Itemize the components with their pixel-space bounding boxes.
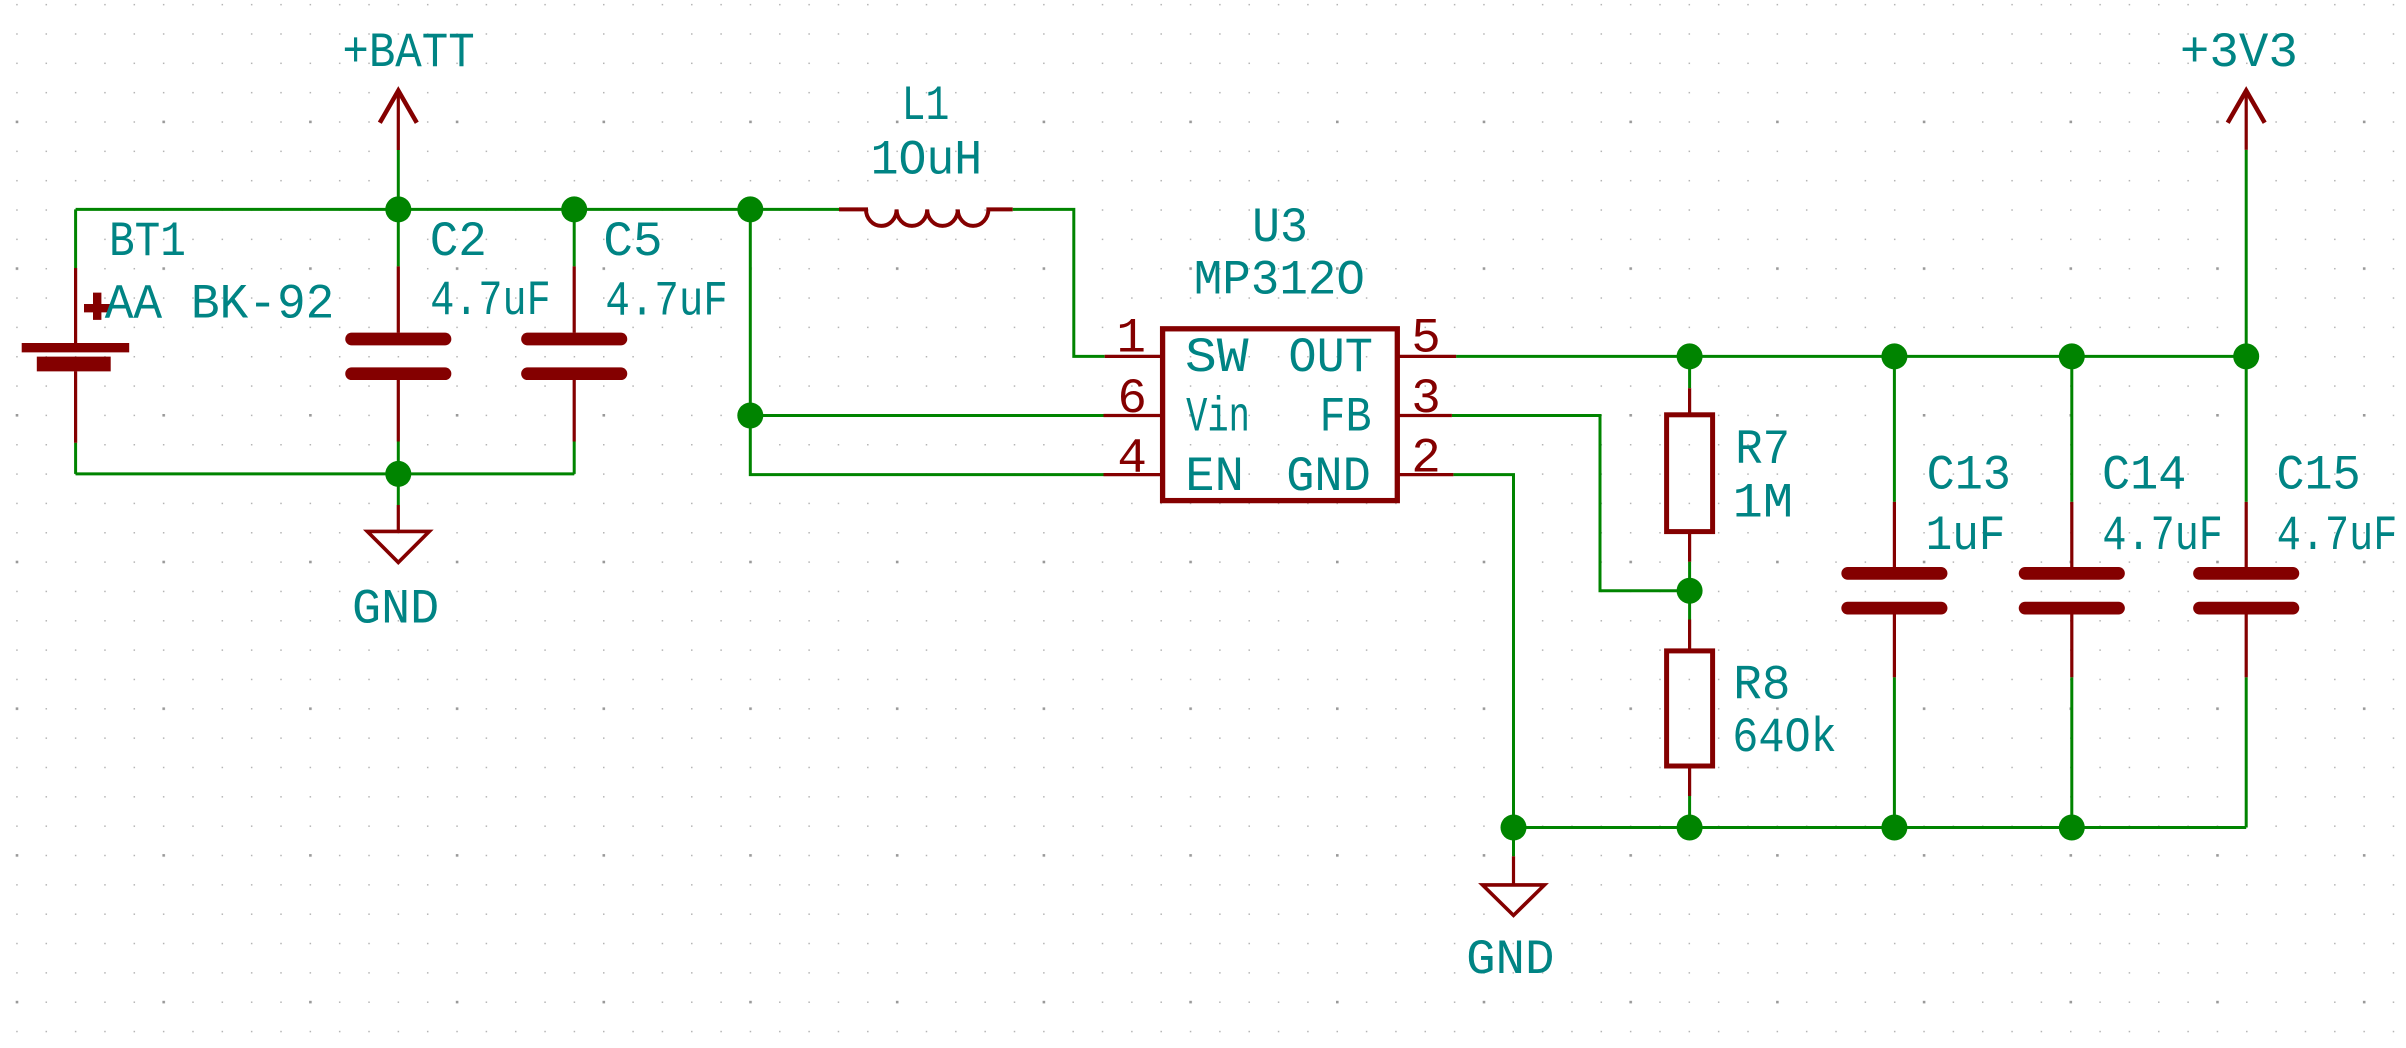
pin 5 OUT [1288, 311, 1456, 387]
ground GND left [367, 505, 429, 562]
junction [2059, 815, 2085, 841]
wire pin 2 to ground rail [1453, 475, 1513, 828]
svg-text:C14: C14 [2102, 447, 2186, 503]
svg-text:C13: C13 [1927, 447, 2011, 503]
junction [737, 196, 763, 222]
pin 3 FB [1320, 371, 1452, 445]
svg-text:1uF: 1uF [1926, 508, 2006, 564]
svg-text:OUT: OUT [1288, 330, 1373, 386]
svg-text:SW: SW [1185, 330, 1249, 386]
svg-text:U3: U3 [1252, 200, 1308, 256]
junction [1677, 343, 1703, 369]
svg-text:GND: GND [1286, 449, 1371, 505]
svg-text:MP312O: MP312O [1194, 253, 1365, 309]
wire battery bottom [74, 443, 77, 474]
svg-text:2: 2 [1411, 431, 1441, 487]
junction [385, 196, 411, 222]
inductor L1 [839, 209, 1013, 226]
wire bottom rail battery to C5 [76, 472, 575, 475]
junction [737, 403, 763, 429]
capacitor C13 [1848, 502, 1941, 677]
svg-text:64Ok: 64Ok [1732, 710, 1837, 766]
svg-text:AA BK-92: AA BK-92 [105, 276, 335, 332]
battery BT1 [22, 268, 130, 443]
wire C14 bottom [2070, 677, 2073, 827]
svg-text:1M: 1M [1733, 476, 1793, 532]
wire top rail battery to L1 [76, 208, 839, 211]
wire C5 top [573, 209, 576, 266]
wire battery top [74, 209, 77, 268]
wire R7 top [1688, 356, 1691, 388]
svg-text:1OuH: 1OuH [871, 133, 983, 189]
resistor R7 [1667, 388, 1713, 562]
junction [1881, 343, 1907, 369]
wire C5 bottom [573, 442, 576, 474]
pin 6 Vin [1104, 371, 1250, 445]
svg-text:5: 5 [1411, 311, 1441, 367]
power symbol +BATT [380, 91, 417, 150]
capacitor C5 [528, 266, 621, 441]
svg-text:4: 4 [1117, 431, 1147, 487]
wire +3V3 vertical [2245, 150, 2248, 357]
power symbol +3V3 [2228, 91, 2265, 150]
wire ground rail [1514, 826, 2247, 829]
svg-text:L1: L1 [902, 78, 950, 134]
capacitor C15 [2200, 502, 2293, 677]
wire C14 top [2070, 356, 2073, 502]
svg-text:4.7uF: 4.7uF [2102, 508, 2223, 564]
wire C13 top [1893, 356, 1896, 502]
svg-text:3: 3 [1411, 371, 1441, 427]
wire R7 bottom [1688, 562, 1691, 591]
resistor R8 [1667, 620, 1713, 797]
pin 4 EN [1104, 431, 1244, 505]
junction [2059, 343, 2085, 369]
wire +BATT stem [397, 150, 400, 209]
svg-text:4.7uF: 4.7uF [605, 274, 727, 330]
wire C15 top [2245, 356, 2248, 502]
svg-text:Vin: Vin [1186, 390, 1250, 446]
junction [385, 461, 411, 487]
svg-text:6: 6 [1117, 371, 1147, 427]
wire GND stem right [1512, 828, 1515, 857]
svg-text:1: 1 [1116, 311, 1146, 367]
capacitor C14 [2025, 502, 2118, 677]
wire L1 output to pin 1 [1013, 209, 1105, 356]
svg-text:FB: FB [1320, 390, 1372, 446]
junction [1501, 815, 1527, 841]
wire C2 bottom [397, 442, 400, 474]
svg-text:4.7uF: 4.7uF [2277, 508, 2398, 564]
wire C2 top [397, 209, 400, 266]
svg-text:GND: GND [1466, 932, 1554, 988]
svg-text:+3V3: +3V3 [2180, 25, 2298, 81]
svg-text:BT1: BT1 [109, 214, 186, 270]
wire FB to divider [1452, 416, 1690, 591]
wire C13 bottom [1893, 677, 1896, 827]
svg-text:C2: C2 [430, 214, 487, 270]
junction [1677, 578, 1703, 604]
wire GND stem left [397, 474, 400, 505]
junction [2233, 343, 2259, 369]
svg-text:EN: EN [1185, 449, 1244, 505]
junction [1677, 815, 1703, 841]
svg-text:R8: R8 [1733, 658, 1790, 714]
wire branch down from top rail [749, 209, 752, 415]
wire R8 top [1688, 591, 1691, 620]
pin 2 GND [1286, 431, 1453, 505]
capacitor C2 [352, 266, 445, 441]
svg-text:C15: C15 [2276, 447, 2360, 503]
svg-text:+BATT: +BATT [342, 25, 474, 81]
junction [561, 196, 587, 222]
svg-text:4.7uF: 4.7uF [430, 273, 551, 329]
wire C15 bottom [2245, 677, 2248, 827]
op-amp U3 body [1163, 329, 1398, 501]
wire to EN pin 4 [750, 416, 1103, 475]
wire R8 bottom [1688, 796, 1691, 828]
wire to Vin pin 6 [750, 414, 1103, 417]
ground GND right [1483, 856, 1545, 915]
wire OUT rail [1456, 355, 2246, 358]
svg-text:GND: GND [352, 581, 439, 637]
svg-text:C5: C5 [603, 214, 662, 270]
svg-text:R7: R7 [1735, 422, 1790, 478]
pin 1 SW [1105, 311, 1249, 387]
junction [1881, 815, 1907, 841]
